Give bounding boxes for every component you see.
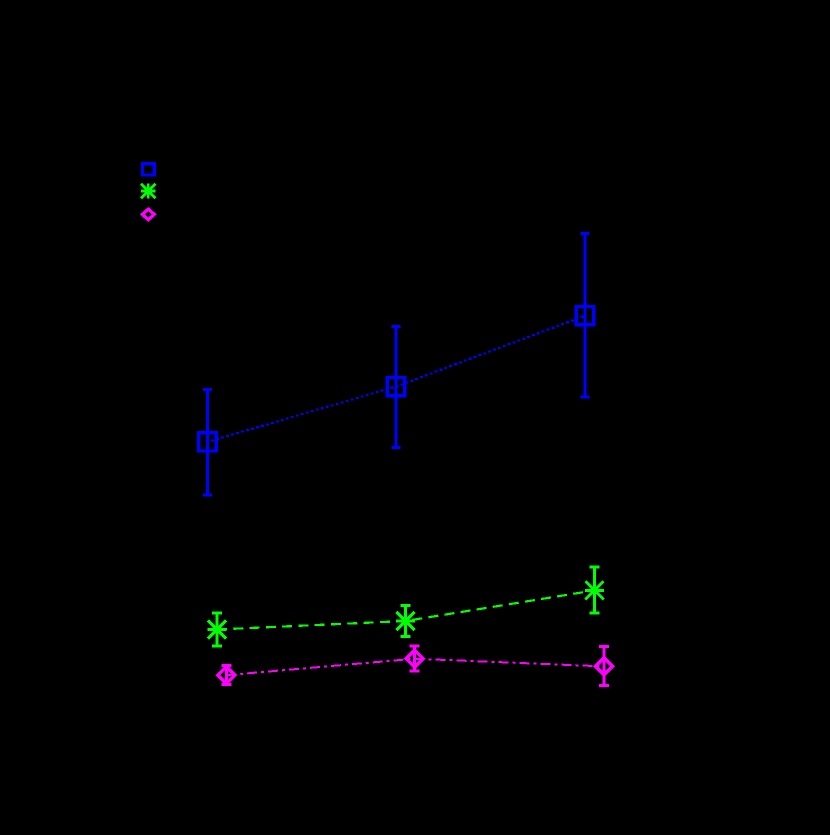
series2 errorbar 3 [590, 567, 600, 613]
series1 errorbar 1 [203, 390, 212, 496]
legend marker series2 (green star) [141, 184, 156, 199]
series2 line (green dashed) [217, 590, 595, 629]
series3 point 3 (open diamond) [596, 658, 613, 675]
series2 errorbar 1 [212, 613, 222, 646]
series2 point 3 (star) [585, 581, 604, 600]
series3 errorbar 1 [221, 666, 231, 685]
series3 errorbar 2 [410, 646, 420, 671]
series1 line (blue dotted) [206, 316, 583, 443]
legend marker series3 (magenta open diamond) [142, 209, 154, 220]
series3 point 1 (open diamond) [218, 667, 235, 684]
series1 point 2 (open square) [387, 377, 405, 395]
series3 errorbar 3 [599, 647, 609, 686]
series2 point 1 (star) [208, 620, 227, 639]
series1 point 1 (open square) [199, 433, 217, 451]
series2 point 2 (star) [396, 612, 415, 631]
series1 errorbar 3 [581, 233, 590, 397]
legend marker series1 (blue open square) [143, 164, 155, 175]
series1 point 3 (open square) [576, 307, 594, 325]
series3 point 2 (open diamond) [406, 650, 423, 667]
series3 line (magenta dash-dot) [226, 659, 604, 676]
series1 errorbar 2 [392, 326, 401, 447]
series2 errorbar 2 [401, 606, 411, 637]
